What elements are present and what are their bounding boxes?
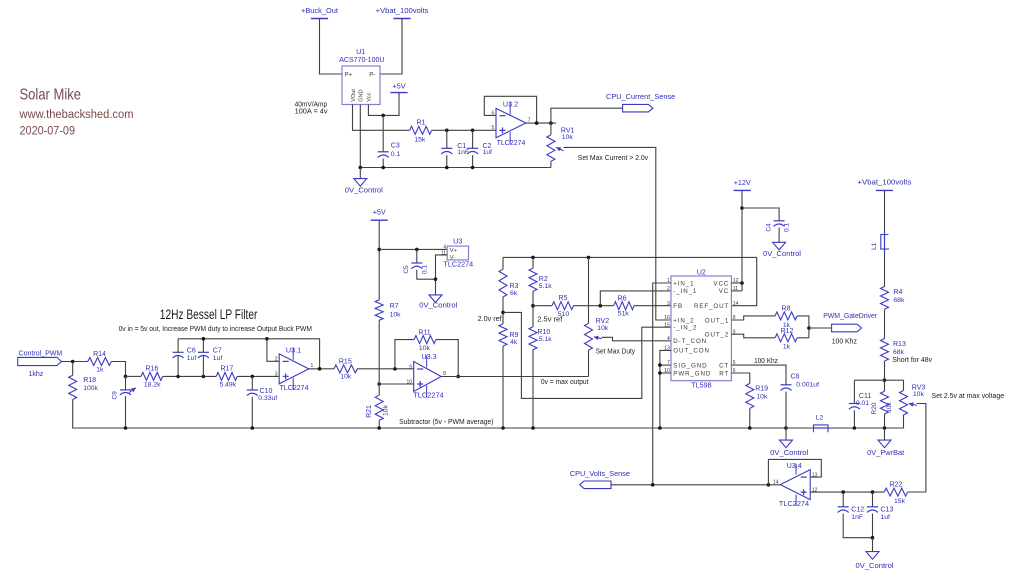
current sensor U1 ACS770-100U bbox=[342, 66, 380, 105]
svg-text:U3.3: U3.3 bbox=[421, 352, 436, 361]
junction bbox=[767, 483, 771, 487]
wire node to R16 bbox=[126, 375, 142, 377]
junction bbox=[531, 304, 535, 308]
wire PWR_GND stub bbox=[660, 372, 671, 374]
wire to PWM_GateDriver bbox=[809, 327, 832, 329]
svg-text:+12V: +12V bbox=[734, 178, 751, 187]
svg-text:Set Max Duty: Set Max Duty bbox=[596, 349, 636, 356]
svg-text:100k: 100k bbox=[83, 385, 98, 392]
resistor R2 bbox=[529, 268, 537, 291]
ground 0V_Control bbox=[354, 179, 367, 187]
svg-text:R5: R5 bbox=[559, 295, 568, 302]
junction bbox=[377, 382, 381, 386]
svg-text:U3.1: U3.1 bbox=[286, 346, 301, 355]
wire R13 down bbox=[884, 361, 886, 391]
svg-text:C13: C13 bbox=[881, 507, 894, 514]
wire to CPU_Current_Sense bbox=[551, 108, 623, 123]
wire to C1 bbox=[446, 130, 448, 148]
junction bbox=[202, 375, 206, 379]
junction bbox=[359, 166, 363, 170]
svg-text:1uf: 1uf bbox=[483, 149, 493, 156]
junction bbox=[176, 375, 180, 379]
wire to C3 bbox=[382, 115, 384, 151]
junction bbox=[651, 483, 655, 487]
resistor R3 bbox=[499, 269, 507, 297]
junction bbox=[471, 129, 475, 133]
svg-text:+IN_1: +IN_1 bbox=[673, 280, 694, 287]
svg-text:0.1: 0.1 bbox=[784, 223, 791, 232]
resistor R13 bbox=[881, 339, 889, 361]
svg-text:Set 2.5v at max voltage: Set 2.5v at max voltage bbox=[932, 393, 1005, 400]
svg-text:10k: 10k bbox=[886, 402, 893, 413]
junction bbox=[599, 304, 603, 308]
svg-text:RT: RT bbox=[719, 370, 729, 377]
svg-text:+Buck_Out: +Buck_Out bbox=[301, 6, 338, 15]
svg-text:U3.2: U3.2 bbox=[503, 99, 518, 108]
wire C9 to rail bbox=[125, 396, 127, 428]
svg-text:15: 15 bbox=[664, 322, 670, 328]
svg-text:10k: 10k bbox=[562, 134, 574, 141]
junction bbox=[531, 426, 535, 430]
svg-text:SIG_GND: SIG_GND bbox=[673, 362, 707, 369]
capacitor C9 bbox=[120, 388, 136, 395]
svg-text:10k: 10k bbox=[756, 393, 768, 400]
wire R16 to R17 bbox=[163, 375, 217, 377]
svg-text:R4: R4 bbox=[893, 289, 902, 296]
wire +5V to R7 bbox=[378, 220, 380, 300]
svg-text:R10: R10 bbox=[537, 329, 550, 336]
svg-text:4: 4 bbox=[667, 336, 670, 342]
wire R5 to R6 bbox=[574, 305, 614, 307]
junction bbox=[807, 326, 811, 330]
svg-text:-_IN_2: -_IN_2 bbox=[673, 325, 697, 332]
resistor R20 bbox=[881, 391, 889, 414]
wire RV3 bottom rail bbox=[786, 415, 904, 428]
svg-text:11: 11 bbox=[441, 251, 446, 257]
svg-text:2020-07-09: 2020-07-09 bbox=[20, 126, 76, 138]
wire R14 to node bbox=[111, 362, 125, 377]
wire RT to R19 bbox=[731, 373, 749, 383]
svg-text:R2: R2 bbox=[539, 276, 548, 283]
svg-text:C3: C3 bbox=[391, 142, 400, 149]
wire R15 to U3.3 minus bbox=[357, 368, 414, 370]
wire to C2 bbox=[472, 130, 474, 148]
svg-text:0V_Control: 0V_Control bbox=[856, 561, 894, 570]
svg-text:3: 3 bbox=[275, 372, 278, 378]
wire R19 to rail bbox=[749, 408, 751, 428]
wire divider top rail bbox=[854, 379, 903, 381]
wire OUT_1 to R8 bbox=[731, 316, 775, 320]
svg-text:+Vbat_100volts: +Vbat_100volts bbox=[376, 6, 429, 15]
resistor R15 bbox=[334, 365, 357, 373]
wire R11 to U3.3 output bbox=[436, 340, 458, 377]
junction bbox=[202, 337, 206, 341]
svg-text:R19: R19 bbox=[755, 385, 768, 392]
wire to R18 bbox=[72, 362, 74, 376]
potentiometer RV3 bbox=[900, 391, 917, 415]
junction bbox=[471, 166, 475, 170]
svg-text:0.001uf: 0.001uf bbox=[796, 381, 819, 388]
wire C5 to ground node bbox=[417, 270, 436, 279]
svg-text:4: 4 bbox=[443, 244, 446, 250]
resistor R1 bbox=[410, 126, 432, 134]
svg-text:TL598: TL598 bbox=[691, 381, 711, 390]
resistor R19 bbox=[746, 383, 754, 408]
svg-text:REF_OUT: REF_OUT bbox=[694, 303, 729, 310]
svg-text:R13: R13 bbox=[893, 341, 906, 348]
potentiometer RV2 bbox=[585, 323, 602, 350]
power flag +5V bbox=[371, 219, 388, 221]
svg-text:18.2k: 18.2k bbox=[144, 382, 161, 389]
op-amp U3.4 bbox=[780, 464, 810, 506]
wire C6 top to feedback rail bbox=[177, 339, 179, 353]
op-amp U3.2 bbox=[496, 102, 526, 143]
wire R6 to U2 FB bbox=[634, 305, 671, 307]
svg-text:R3: R3 bbox=[510, 283, 519, 290]
junction bbox=[658, 363, 662, 367]
svg-text:Short for 48v: Short for 48v bbox=[892, 357, 932, 364]
svg-text:14: 14 bbox=[733, 301, 739, 307]
svg-text:51k: 51k bbox=[618, 311, 630, 318]
svg-text:L2: L2 bbox=[816, 414, 824, 421]
ground 0V_Control bbox=[780, 440, 793, 448]
junction bbox=[658, 371, 662, 375]
junction bbox=[251, 375, 255, 379]
port CPU_Current_Sense bbox=[623, 104, 653, 112]
svg-text:510: 510 bbox=[558, 311, 570, 318]
svg-text:RV2: RV2 bbox=[596, 318, 610, 325]
wire U3.2 output bbox=[526, 122, 556, 124]
svg-text:14: 14 bbox=[773, 480, 779, 486]
svg-text:0V_Control: 0V_Control bbox=[763, 249, 801, 258]
svg-text:U3: U3 bbox=[453, 236, 462, 245]
svg-text:TLC2274: TLC2274 bbox=[443, 259, 473, 268]
svg-text:16: 16 bbox=[664, 315, 670, 321]
resistor R21 bbox=[375, 395, 383, 420]
junction bbox=[381, 114, 385, 118]
svg-text:15k: 15k bbox=[894, 498, 906, 505]
wire U3.1 output bbox=[309, 368, 334, 370]
svg-text:1nF: 1nF bbox=[851, 514, 863, 521]
wire to U2 -IN_1 bbox=[600, 291, 671, 306]
svg-text:PWM_GateDriver: PWM_GateDriver bbox=[823, 311, 877, 320]
svg-text:10k: 10k bbox=[419, 345, 431, 352]
junction bbox=[531, 256, 535, 260]
junction bbox=[434, 277, 438, 281]
svg-text:15k: 15k bbox=[414, 136, 426, 143]
svg-text:2: 2 bbox=[667, 286, 670, 292]
svg-text:P-: P- bbox=[369, 73, 375, 79]
wire OUT_2 to R12 bbox=[731, 334, 775, 338]
svg-text:VCC: VCC bbox=[713, 280, 729, 287]
wire ground rail top section bbox=[360, 167, 551, 169]
svg-text:TLC2274: TLC2274 bbox=[413, 390, 444, 399]
wire R10 to rail bbox=[532, 350, 534, 428]
wire to ground bbox=[435, 279, 437, 295]
svg-text:L1: L1 bbox=[871, 242, 878, 250]
svg-text:0v in = 5v out, Increase PWM d: 0v in = 5v out, Increase PWM duty to inc… bbox=[119, 324, 312, 333]
junction bbox=[71, 360, 75, 364]
wire rail to PwrBat ground bbox=[884, 428, 886, 440]
capacitor C6 bbox=[173, 352, 184, 358]
svg-text:0.01: 0.01 bbox=[856, 400, 869, 407]
svg-text:ACS770-100U: ACS770-100U bbox=[339, 55, 384, 64]
svg-text:R18: R18 bbox=[83, 377, 96, 384]
capacitor C11 bbox=[849, 404, 860, 410]
svg-text:+Vbat_100volts: +Vbat_100volts bbox=[857, 177, 911, 186]
svg-text:R21: R21 bbox=[366, 405, 373, 418]
junction bbox=[535, 121, 539, 125]
resistor R16 bbox=[141, 372, 163, 380]
wire R8 to junction bbox=[797, 316, 809, 338]
svg-text:R17: R17 bbox=[220, 366, 233, 373]
svg-text:TLC2274: TLC2274 bbox=[779, 499, 809, 508]
svg-text:R20: R20 bbox=[871, 402, 878, 414]
port Control_PWM bbox=[18, 357, 62, 365]
junction bbox=[740, 206, 744, 210]
wire C2 to rail bbox=[472, 155, 474, 167]
wire +12V to VCC VC bbox=[741, 190, 743, 291]
svg-text:www.thebackshed.com: www.thebackshed.com bbox=[19, 109, 134, 121]
wire volts sense to U3.4 output bbox=[611, 484, 780, 486]
wire SIG_GND stub bbox=[660, 364, 671, 366]
capacitor C1 bbox=[441, 148, 452, 154]
svg-text:-_IN_1: -_IN_1 bbox=[673, 288, 697, 295]
svg-text:+IN_2: +IN_2 bbox=[673, 317, 694, 324]
svg-text:VOut: VOut bbox=[351, 89, 357, 102]
junction bbox=[265, 337, 269, 341]
junction bbox=[377, 426, 381, 430]
wire U3.1 feedback rail bbox=[178, 339, 320, 369]
svg-text:0V_Control: 0V_Control bbox=[770, 448, 808, 457]
resistor R9 bbox=[499, 324, 507, 346]
wire REF_OUT 5v rail bbox=[503, 257, 757, 305]
junction bbox=[740, 281, 744, 285]
resistor R7 bbox=[375, 300, 383, 320]
svg-text:100A = 4v: 100A = 4v bbox=[295, 109, 329, 116]
wire U3.4 plus input to R22 bbox=[810, 491, 884, 493]
op-amp U3.1 bbox=[279, 348, 309, 390]
wire rail to RV2 bbox=[588, 257, 590, 323]
wire U3.4 feedback bbox=[768, 459, 821, 484]
junction bbox=[501, 426, 505, 430]
wire R1 to op-amp input bbox=[432, 129, 496, 131]
wire to U3.3 plus input bbox=[379, 383, 414, 385]
svg-text:12Hz Bessel LP Filter: 12Hz Bessel LP Filter bbox=[160, 307, 258, 322]
svg-text:V+: V+ bbox=[450, 248, 458, 254]
resistor R8 bbox=[775, 312, 797, 320]
wire RV2 bottom to output net bbox=[588, 350, 590, 376]
op-amp power U3 bbox=[447, 246, 468, 260]
wire +5V to U3 V+ bbox=[379, 248, 447, 250]
port PWM_GateDriver bbox=[832, 324, 862, 332]
wire R12 to junction bbox=[797, 337, 809, 339]
junction bbox=[658, 426, 662, 430]
inductor L1 bbox=[880, 232, 889, 253]
wire R21 to rail bbox=[378, 420, 380, 428]
power flag +5V bbox=[390, 92, 407, 94]
svg-text:5: 5 bbox=[492, 125, 495, 131]
resistor R22 bbox=[884, 488, 907, 496]
capacitor C8 bbox=[781, 385, 792, 391]
svg-text:C11: C11 bbox=[859, 393, 871, 400]
wire U3.2 feedback bbox=[484, 96, 536, 123]
wire to C10 bbox=[251, 376, 253, 390]
wire C3 to ground rail bbox=[382, 159, 384, 168]
capacitor C3 bbox=[378, 152, 389, 158]
svg-text:CT: CT bbox=[719, 362, 729, 369]
svg-text:1k: 1k bbox=[96, 366, 104, 373]
wire C4 to ground bbox=[778, 228, 780, 243]
wire to C9 bbox=[125, 376, 127, 390]
svg-text:5.1k: 5.1k bbox=[539, 283, 552, 290]
svg-text:0.1: 0.1 bbox=[422, 265, 429, 274]
svg-text:+5V: +5V bbox=[393, 81, 406, 90]
svg-text:10k: 10k bbox=[340, 374, 352, 381]
resistor R17 bbox=[216, 372, 237, 380]
svg-text:1uf: 1uf bbox=[881, 514, 891, 521]
wire to RV3 bbox=[903, 380, 905, 390]
svg-text:PWR_GND: PWR_GND bbox=[673, 370, 711, 377]
wire GND to rail bbox=[359, 105, 361, 168]
wire RV1 wiper to U2 +IN_2 bbox=[564, 147, 672, 320]
svg-text:5.49k: 5.49k bbox=[219, 382, 236, 389]
junction bbox=[883, 378, 887, 382]
svg-text:R15: R15 bbox=[339, 358, 352, 365]
svg-text:10k: 10k bbox=[382, 404, 389, 416]
junction bbox=[377, 248, 381, 252]
svg-text:Set Max Current > 2.0v: Set Max Current > 2.0v bbox=[578, 155, 649, 162]
svg-text:10k: 10k bbox=[913, 391, 925, 398]
wire Vcc to +5V bbox=[368, 93, 399, 116]
wire R7 to U3.3 plus node bbox=[378, 320, 380, 384]
wire C12 bottom bbox=[843, 514, 872, 538]
svg-text:CPU_Current_Sense: CPU_Current_Sense bbox=[606, 92, 675, 101]
wire +Vbat to U1 P- bbox=[380, 19, 402, 75]
svg-text:1nF: 1nF bbox=[457, 149, 469, 156]
wire rail to R3 bbox=[502, 257, 504, 269]
wire 2.0v ref to U2 -IN_2 bbox=[503, 312, 671, 398]
svg-text:GND: GND bbox=[359, 89, 365, 101]
svg-text:Control_PWM: Control_PWM bbox=[19, 349, 63, 358]
capacitor C13 bbox=[867, 507, 878, 513]
ground 0V_Control bbox=[866, 552, 879, 560]
wire VC stub bbox=[731, 290, 742, 292]
junction bbox=[853, 426, 857, 430]
svg-text:+5V: +5V bbox=[373, 207, 386, 216]
svg-text:9: 9 bbox=[409, 364, 412, 370]
power flag +12V bbox=[734, 189, 751, 191]
svg-text:2: 2 bbox=[275, 357, 278, 363]
svg-text:C9: C9 bbox=[112, 391, 119, 400]
resistor R11 bbox=[414, 336, 436, 344]
wire R18 to main ground rail bbox=[73, 400, 786, 429]
junction bbox=[445, 129, 449, 133]
svg-text:2.0v ref: 2.0v ref bbox=[478, 316, 502, 323]
wire R4 to R13 bbox=[884, 309, 886, 338]
wire RV3 wiper to R22 bbox=[908, 404, 926, 493]
junction bbox=[549, 121, 553, 125]
ground 0V_PwrBat bbox=[878, 440, 891, 448]
junction bbox=[784, 426, 788, 430]
capacitor C7 bbox=[198, 352, 209, 358]
resistor R14 bbox=[88, 358, 112, 366]
junction bbox=[587, 256, 591, 260]
svg-text:D-T_CON: D-T_CON bbox=[673, 338, 707, 345]
junction bbox=[841, 490, 845, 494]
wire U3.3 output to RV2 bbox=[441, 376, 588, 378]
wire C10 to rail bbox=[251, 397, 253, 428]
svg-text:OUT_2: OUT_2 bbox=[705, 332, 729, 339]
svg-text:C6: C6 bbox=[187, 348, 196, 355]
svg-text:1khz: 1khz bbox=[29, 371, 44, 378]
junction bbox=[445, 166, 449, 170]
svg-text:68k: 68k bbox=[893, 297, 905, 304]
wire VOut to R1 bbox=[353, 105, 410, 131]
wire C13 bottom bbox=[872, 514, 874, 538]
resistor R12 bbox=[775, 334, 797, 342]
wire 2.5v ref to R5 bbox=[533, 305, 552, 307]
svg-text:C5: C5 bbox=[403, 265, 410, 274]
svg-text:1uf: 1uf bbox=[187, 355, 197, 362]
svg-text:1k: 1k bbox=[783, 344, 791, 351]
svg-text:68k: 68k bbox=[893, 349, 905, 356]
svg-text:VC: VC bbox=[719, 288, 729, 295]
wire R9 to rail bbox=[502, 346, 504, 428]
svg-text:P+: P+ bbox=[345, 73, 353, 79]
wire to bottom ground bbox=[872, 538, 874, 552]
svg-text:3: 3 bbox=[667, 301, 670, 307]
svg-text:R6: R6 bbox=[618, 296, 627, 303]
svg-text:10k: 10k bbox=[390, 312, 402, 319]
junction bbox=[871, 536, 875, 540]
svg-text:FB: FB bbox=[673, 303, 683, 310]
junction bbox=[456, 375, 460, 379]
svg-text:U3.4: U3.4 bbox=[787, 461, 802, 470]
svg-text:10: 10 bbox=[406, 380, 412, 386]
wire R2 to R10 bbox=[532, 291, 534, 327]
PWM controller U2 TL598 bbox=[671, 276, 731, 381]
inductor L2 bbox=[814, 424, 829, 432]
svg-text:C12: C12 bbox=[851, 507, 864, 514]
svg-text:R9: R9 bbox=[510, 332, 519, 339]
junction bbox=[415, 248, 419, 252]
svg-text:0V_Control: 0V_Control bbox=[345, 185, 383, 194]
wire rail to R2 bbox=[532, 257, 534, 268]
capacitor C5 bbox=[411, 263, 422, 269]
junction bbox=[393, 367, 397, 371]
svg-text:Solar Mike: Solar Mike bbox=[20, 86, 82, 103]
port CPU_Volts_Sense bbox=[580, 481, 611, 489]
wire U2 ground pins to rail bbox=[660, 350, 671, 428]
wire RV1 top bbox=[550, 123, 552, 135]
wire +Buck_Out to U1 P+ bbox=[320, 19, 343, 75]
svg-text:R7: R7 bbox=[390, 303, 399, 310]
junction bbox=[124, 426, 128, 430]
svg-text:0.1: 0.1 bbox=[391, 151, 401, 158]
svg-text:0V_Control: 0V_Control bbox=[419, 301, 457, 310]
junction bbox=[871, 490, 875, 494]
junction bbox=[381, 166, 385, 170]
junction bbox=[883, 426, 887, 430]
svg-text:C7: C7 bbox=[213, 348, 222, 355]
svg-text:40mV/Amp: 40mV/Amp bbox=[295, 101, 328, 108]
capacitor C2 bbox=[467, 148, 478, 154]
power flag +Vbat_100volts bbox=[876, 189, 893, 191]
wire C11 to rail bbox=[853, 410, 855, 428]
wire C8 to rail bbox=[785, 392, 787, 428]
wire rail to ground bbox=[785, 428, 787, 440]
